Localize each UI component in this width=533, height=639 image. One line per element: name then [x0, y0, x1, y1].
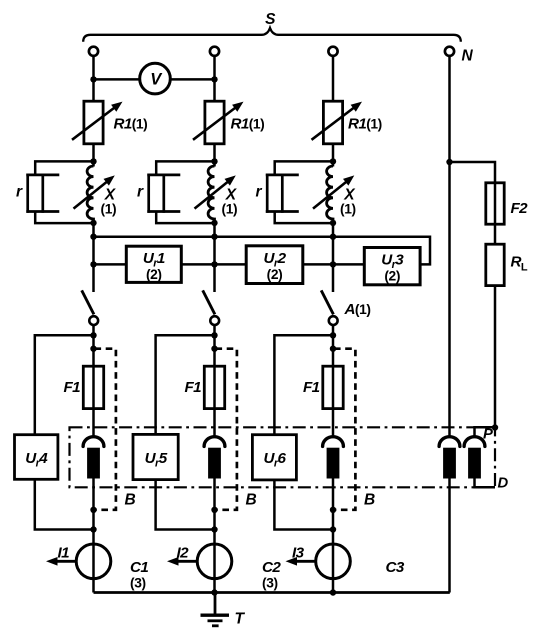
junction upper bus — [211, 234, 217, 240]
junction dashed-link tap (phase 1) — [90, 346, 96, 352]
wire CT to source (phase 3) — [332, 479, 335, 593]
wire load branch top — [450, 162, 496, 183]
current transformer bar (phase 3) — [327, 448, 340, 479]
svg-text:(3): (3) — [130, 576, 146, 591]
svg-text:C2: C2 — [262, 559, 281, 576]
terminal phase 2 — [210, 47, 219, 56]
resistor r (phase 1) — [26, 174, 59, 213]
svg-text:F1: F1 — [303, 379, 320, 396]
R1 variability arrow (phase 2) — [193, 107, 236, 140]
wire phase 1 R1 to reactor — [92, 144, 95, 167]
voltmeter V — [140, 63, 171, 94]
arrow I1 — [57, 560, 77, 563]
fuse F1 (phase 2) — [204, 366, 224, 408]
fuse F2 — [486, 183, 504, 224]
junction dashed-link return (phase 1) — [90, 507, 96, 513]
wire Ur5 top lead (phase 2) — [156, 335, 215, 434]
X variability arrow (phase 2) — [195, 181, 229, 209]
link B dashed loop (phase 3) — [334, 349, 355, 510]
R1 variability arrow (phase 1) — [72, 107, 115, 140]
wire — [303, 263, 365, 266]
svg-text:(1): (1) — [340, 201, 356, 216]
junction Ur6 return (phase 3) — [330, 526, 336, 532]
junction reactor bottom (phase 2) — [211, 220, 217, 226]
supply bus brace S — [83, 28, 461, 42]
junction dashed-link tap (phase 3) — [330, 346, 336, 352]
svg-text:B: B — [125, 492, 136, 509]
junction phase 2 voltmeter tap — [211, 76, 217, 82]
wire parallel-r loop top (phase 1) — [35, 161, 93, 175]
wire bottom return bus — [94, 591, 450, 594]
wire phase 3 drop from terminal — [332, 56, 335, 101]
wire switch to fuse (phase 2) — [213, 325, 216, 366]
resistor R1 (phase 1) — [84, 101, 103, 144]
wire fuse element F2 — [494, 183, 497, 244]
wire phase 2 reactor to switch — [213, 223, 216, 292]
svg-text:F1: F1 — [184, 379, 201, 396]
svg-text:P: P — [483, 427, 493, 443]
wire Ur5 bottom lead (phase 2) — [156, 480, 215, 530]
current transformer bar (phase 1) — [87, 448, 100, 479]
svg-text:F2: F2 — [511, 200, 529, 217]
wire phase 2 drop from terminal — [213, 56, 216, 101]
wire parallel-r loop bottom (phase 3) — [275, 211, 333, 223]
link B dashed loop (phase 1) — [95, 349, 116, 510]
junction dashed-link tap (phase 2) — [211, 346, 217, 352]
terminal phase 3 — [328, 47, 337, 56]
wire parallel-r loop bottom (phase 1) — [35, 211, 93, 223]
svg-text:I2: I2 — [177, 545, 190, 562]
junction phase 1 voltmeter tap — [90, 76, 96, 82]
resistor R1 (phase 3) — [323, 101, 342, 144]
svg-text:S: S — [265, 11, 276, 28]
junction dashed-link return (phase 2) — [211, 507, 217, 513]
resistor RL — [486, 244, 504, 285]
wire switch to fuse (phase 3) — [332, 325, 335, 366]
svg-text:B: B — [364, 492, 375, 509]
junction upper bus — [90, 234, 96, 240]
terminal neutral N — [445, 47, 454, 56]
current transformer dome (phase 3) — [323, 437, 344, 447]
current transformer dome (phase 2) — [204, 437, 225, 447]
wire voltmeter link phase1-phase2 — [94, 78, 215, 81]
fuse F1 (phase 3) — [323, 366, 343, 408]
source C3 (circle) — [316, 544, 351, 579]
switch A (phase 1) — [82, 290, 98, 325]
svg-text:I1: I1 — [58, 545, 70, 562]
svg-text:(2): (2) — [146, 267, 162, 282]
junction dashed-link return (phase 3) — [330, 507, 336, 513]
svg-text:R1(1): R1(1) — [114, 115, 148, 132]
wire neutral line — [448, 56, 451, 437]
junction node P — [492, 424, 498, 430]
svg-text:(2): (2) — [267, 267, 283, 282]
wire neutral to bottom bus — [448, 479, 451, 593]
svg-text:C3: C3 — [386, 559, 405, 576]
wire phase 1 drop from terminal — [92, 56, 95, 101]
junction Ur5 tap (phase 2) — [211, 332, 217, 338]
wire phase 3 R1 to reactor — [332, 144, 335, 167]
wire Ur6 top lead (phase 3) — [274, 335, 333, 434]
transducer U_r6 — [252, 435, 296, 480]
junction Ur5 return (phase 2) — [211, 526, 217, 532]
wire CT to source (phase 1) — [92, 479, 95, 593]
junction upper bus — [330, 234, 336, 240]
R1 variability arrow (phase 3) — [312, 107, 355, 140]
wire Ur6 bottom lead (phase 3) — [274, 480, 333, 530]
svg-text:I3: I3 — [292, 545, 305, 562]
screen D boundary (chain line box) — [70, 427, 496, 487]
transducer U_r5 — [133, 434, 178, 479]
svg-text:B: B — [246, 492, 257, 509]
svg-text:(2): (2) — [384, 269, 400, 284]
source C1 (circle) — [76, 544, 111, 579]
transducer U_r2 (2) — [246, 246, 303, 284]
transducer U_r1 (2) — [126, 246, 181, 282]
reactor X coil (phase 2) — [208, 166, 214, 223]
arrow I3 — [296, 560, 316, 563]
wire load branch to P — [494, 286, 497, 428]
X variability arrow (phase 3) — [313, 181, 347, 209]
switch A (phase 2) — [203, 290, 219, 325]
svg-text:A(1): A(1) — [344, 301, 371, 318]
junction lower bus — [330, 261, 336, 267]
junction load branch tap — [446, 159, 452, 165]
source C2 (circle) — [197, 544, 232, 579]
junction reactor bottom (phase 3) — [330, 220, 336, 226]
current transformer dome (neutral) — [439, 437, 460, 447]
resistor r (phase 2) — [147, 174, 180, 213]
current transformer dome (drain) — [464, 437, 485, 447]
junction Ur4 tap (phase 1) — [90, 332, 96, 338]
wire parallel-r loop top (phase 3) — [275, 161, 333, 175]
svg-text:(3): (3) — [262, 576, 278, 591]
fuse F1 (phase 1) — [83, 366, 103, 408]
svg-text:F1: F1 — [63, 379, 80, 396]
svg-text:N: N — [462, 48, 474, 65]
junction reactor top (phase 3) — [330, 158, 336, 164]
junction Ur4 return (phase 1) — [90, 526, 96, 532]
wire parallel-r loop bottom (phase 2) — [156, 211, 214, 223]
reactor X coil (phase 3) — [327, 166, 333, 223]
ground T — [201, 593, 230, 626]
junction ground tap — [211, 589, 217, 595]
wire CT to source (phase 2) — [213, 479, 216, 593]
wire bus below reactors — [94, 237, 431, 265]
terminal phase 1 — [89, 47, 98, 56]
wire drain CT to screen corner — [475, 479, 496, 488]
transducer U_r4 — [15, 435, 58, 480]
svg-text:R1(1): R1(1) — [348, 115, 382, 132]
svg-text:R1(1): R1(1) — [231, 115, 265, 132]
wire parallel-r loop top (phase 2) — [156, 161, 214, 175]
wire — [181, 263, 246, 266]
svg-text:(1): (1) — [101, 201, 117, 216]
svg-text:C1: C1 — [130, 559, 148, 576]
junction lower bus — [90, 261, 96, 267]
wire bus through Ur1-Ur3 — [94, 263, 127, 266]
junction lower bus — [211, 261, 217, 267]
wire P to drain CT — [475, 427, 496, 437]
svg-text:D: D — [498, 475, 509, 491]
transducer U_r3 (2) — [364, 248, 420, 285]
junction Ur6 tap (phase 3) — [330, 332, 336, 338]
junction reactor bottom (phase 1) — [90, 220, 96, 226]
wire phase 1 reactor to switch — [92, 223, 95, 292]
X variability arrow (phase 1) — [74, 181, 108, 209]
arrow I2 — [178, 560, 198, 563]
reactor X coil (phase 1) — [87, 166, 93, 223]
wire Ur4 top lead (phase 1) — [35, 335, 94, 434]
wire phase 3 reactor to switch — [332, 223, 335, 292]
junction reactor top (phase 2) — [211, 158, 217, 164]
wire switch to fuse (phase 1) — [92, 325, 95, 366]
link B dashed loop (phase 2) — [216, 349, 237, 510]
resistor R1 (phase 2) — [205, 101, 224, 144]
junction reactor top (phase 1) — [90, 158, 96, 164]
current transformer dome (phase 1) — [83, 437, 104, 447]
current transformer bar (phase 2) — [208, 448, 221, 479]
switch A (phase 3) — [321, 290, 337, 325]
current transformer bar (drain) — [468, 448, 481, 479]
wire phase 2 R1 to reactor — [213, 144, 216, 167]
wire fuse element (phase 3) — [332, 366, 335, 437]
wire fuse element (phase 1) — [92, 366, 95, 437]
svg-text:(1): (1) — [222, 201, 238, 216]
wire Ur4 bottom lead (phase 1) — [35, 479, 94, 529]
resistor r (phase 3) — [266, 174, 299, 213]
junction phase 3 return — [330, 589, 336, 595]
wire fuse element (phase 2) — [213, 366, 216, 437]
current transformer bar (neutral) — [443, 448, 456, 479]
